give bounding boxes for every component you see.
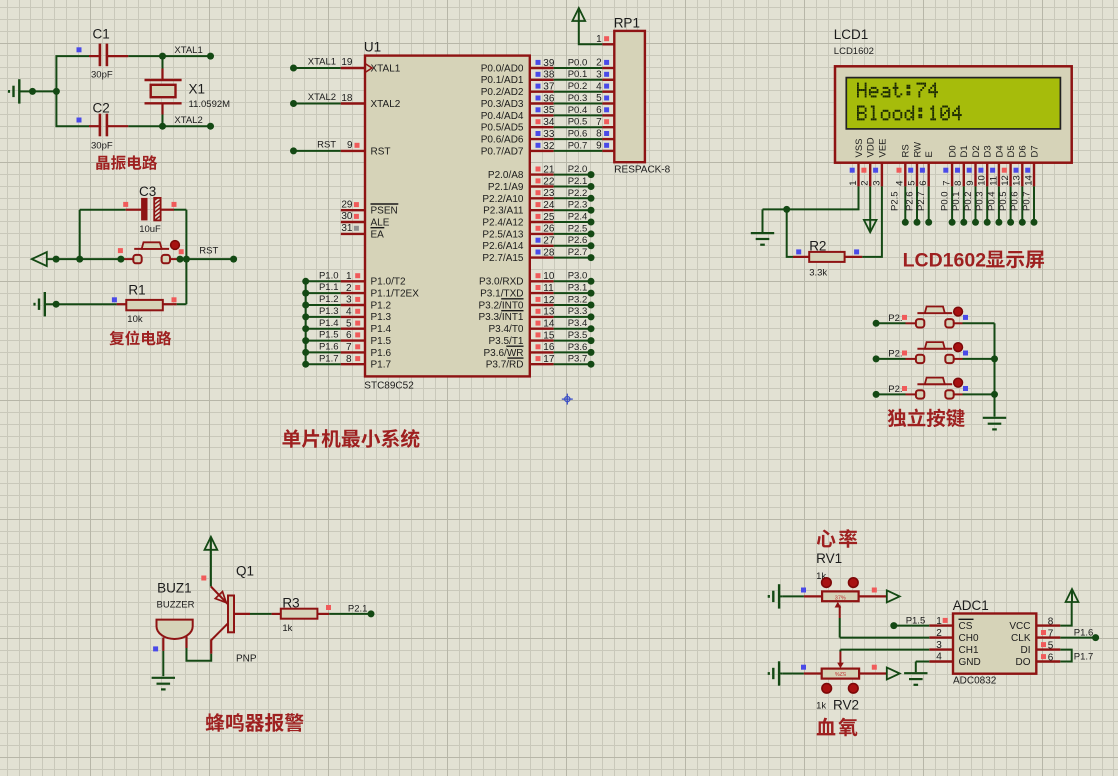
svg-text:25: 25 — [543, 212, 555, 223]
svg-text:21: 21 — [543, 164, 555, 175]
svg-text:VCC: VCC — [1009, 621, 1030, 632]
svg-text:P1.7: P1.7 — [371, 360, 392, 371]
svg-text:7: 7 — [1048, 629, 1054, 640]
svg-text:PSEN: PSEN — [371, 206, 398, 217]
svg-text:37: 37 — [543, 82, 555, 93]
svg-text:C3: C3 — [139, 184, 156, 199]
svg-text:P2.3/A11: P2.3/A11 — [483, 206, 524, 217]
svg-text:7: 7 — [942, 181, 953, 186]
svg-text:24: 24 — [543, 200, 555, 211]
svg-text:R2: R2 — [809, 238, 826, 253]
svg-text:3: 3 — [936, 640, 942, 651]
svg-text:52%: 52% — [835, 670, 846, 676]
svg-text:2: 2 — [860, 181, 871, 186]
svg-text:P0.0/AD0: P0.0/AD0 — [481, 63, 524, 74]
svg-text:RS: RS — [901, 144, 912, 157]
svg-text:P0.6: P0.6 — [568, 129, 588, 140]
svg-text:D4: D4 — [994, 145, 1005, 157]
svg-text:P0.1/AD1: P0.1/AD1 — [481, 75, 524, 86]
svg-text:P0.0: P0.0 — [940, 191, 951, 211]
svg-text:11: 11 — [543, 283, 554, 294]
svg-text:VSS: VSS — [854, 138, 865, 157]
svg-text:10: 10 — [543, 271, 555, 282]
svg-text:7: 7 — [596, 117, 602, 128]
svg-text:P0.4: P0.4 — [986, 191, 997, 211]
svg-text:P2.1: P2.1 — [348, 604, 368, 615]
svg-text:5: 5 — [346, 318, 352, 329]
svg-text:P3.1: P3.1 — [568, 283, 588, 294]
svg-text:34: 34 — [543, 117, 555, 128]
svg-text:1: 1 — [346, 271, 352, 282]
svg-text:P1.6: P1.6 — [319, 342, 339, 353]
svg-text:30pF: 30pF — [91, 70, 113, 81]
svg-text:8: 8 — [596, 129, 602, 140]
svg-text:10uF: 10uF — [139, 224, 161, 235]
svg-text:P0.1: P0.1 — [951, 191, 962, 211]
svg-text:5: 5 — [596, 93, 602, 104]
svg-text:ADC0832: ADC0832 — [953, 676, 997, 687]
svg-text:12: 12 — [1000, 175, 1011, 186]
svg-text:X1: X1 — [189, 82, 206, 97]
svg-text:U1: U1 — [364, 39, 381, 54]
svg-text:10: 10 — [977, 175, 988, 186]
svg-text:P3.7/RD: P3.7/RD — [486, 360, 524, 371]
svg-text:P0.2/AD2: P0.2/AD2 — [481, 87, 524, 98]
svg-text:P3.5/T1: P3.5/T1 — [488, 336, 523, 347]
svg-text:7: 7 — [346, 342, 352, 353]
svg-text:PNP: PNP — [236, 654, 257, 665]
svg-text:DI: DI — [1021, 645, 1031, 656]
svg-text:P3.5: P3.5 — [568, 330, 588, 341]
svg-text:P2.7/A15: P2.7/A15 — [482, 253, 524, 264]
svg-text:1k: 1k — [282, 623, 292, 634]
svg-text:P2.5: P2.5 — [568, 223, 588, 234]
svg-text:RST: RST — [371, 146, 391, 157]
svg-text:33: 33 — [543, 129, 555, 140]
svg-text:D0: D0 — [948, 145, 959, 157]
svg-text:D3: D3 — [983, 145, 994, 157]
svg-text:P2.6: P2.6 — [904, 191, 915, 211]
svg-text:P1.0/T2: P1.0/T2 — [371, 277, 406, 288]
svg-text:XTAL2: XTAL2 — [371, 99, 401, 110]
svg-text:P2.1: P2.1 — [568, 176, 588, 187]
svg-text:P0.5/AD5: P0.5/AD5 — [481, 123, 524, 134]
svg-text:27: 27 — [543, 236, 555, 247]
svg-text:XTAL2: XTAL2 — [308, 92, 336, 103]
svg-text:P2.7: P2.7 — [916, 191, 927, 211]
svg-text:P1.2: P1.2 — [319, 294, 339, 305]
svg-text:18: 18 — [341, 93, 353, 104]
svg-text:XTAL1: XTAL1 — [308, 57, 336, 68]
svg-text:P3.0/RXD: P3.0/RXD — [479, 277, 523, 288]
svg-text:Q1: Q1 — [236, 563, 254, 578]
svg-text:9: 9 — [965, 181, 976, 186]
svg-text:P2.2/A10: P2.2/A10 — [482, 194, 524, 205]
svg-text:DO: DO — [1016, 657, 1031, 668]
svg-text:P2.7: P2.7 — [568, 247, 588, 258]
svg-text:14: 14 — [1023, 175, 1034, 186]
svg-text:P1.5: P1.5 — [319, 330, 339, 341]
svg-text:P1.3: P1.3 — [371, 312, 392, 323]
svg-text:P1.6: P1.6 — [1074, 627, 1094, 638]
svg-text:LCD1: LCD1 — [834, 27, 869, 42]
svg-text:RST: RST — [199, 246, 218, 257]
svg-text:BUZZER: BUZZER — [157, 600, 195, 611]
svg-text:9: 9 — [596, 141, 602, 152]
svg-text:P0.4: P0.4 — [568, 105, 588, 116]
svg-text:P3.2/INT0: P3.2/INT0 — [478, 300, 523, 311]
svg-text:1: 1 — [936, 616, 942, 627]
svg-text:10k: 10k — [127, 314, 143, 325]
svg-text:30pF: 30pF — [91, 141, 113, 152]
svg-text:P3.3/INT1: P3.3/INT1 — [478, 312, 523, 323]
svg-text:4: 4 — [596, 81, 602, 92]
svg-text:P0.3: P0.3 — [568, 93, 588, 104]
svg-text:2: 2 — [596, 58, 602, 69]
svg-text:VEE: VEE — [877, 138, 888, 157]
svg-text:RP1: RP1 — [614, 16, 640, 31]
svg-text:35: 35 — [543, 105, 555, 116]
svg-text:26: 26 — [543, 224, 555, 235]
svg-text:P1.1: P1.1 — [319, 282, 339, 293]
svg-text:XTAL1: XTAL1 — [174, 45, 202, 56]
svg-text:P2.2: P2.2 — [568, 188, 588, 199]
svg-text:P1.7: P1.7 — [1074, 652, 1094, 663]
svg-text:8: 8 — [1048, 616, 1054, 627]
svg-text:31: 31 — [341, 223, 353, 234]
svg-text:D7: D7 — [1029, 145, 1040, 157]
svg-text:4: 4 — [346, 307, 352, 318]
svg-text:22: 22 — [543, 176, 555, 187]
svg-text:6: 6 — [918, 181, 929, 186]
svg-text:P2.4/A12: P2.4/A12 — [482, 217, 524, 228]
svg-text:36: 36 — [543, 93, 555, 104]
svg-text:RESPACK-8: RESPACK-8 — [614, 165, 670, 176]
svg-text:5: 5 — [1048, 641, 1054, 652]
svg-text:RST: RST — [317, 140, 336, 151]
svg-text:P1.5: P1.5 — [371, 336, 392, 347]
svg-text:P3.3: P3.3 — [568, 306, 588, 317]
svg-text:15: 15 — [543, 330, 555, 341]
svg-text:4: 4 — [936, 652, 942, 663]
svg-text:R3: R3 — [282, 595, 299, 610]
svg-text:GND: GND — [959, 657, 981, 668]
svg-text:P2.6/A14: P2.6/A14 — [482, 241, 524, 252]
svg-text:P2.0: P2.0 — [568, 164, 588, 175]
svg-text:P3.2: P3.2 — [568, 294, 588, 305]
svg-text:P0.7/AD7: P0.7/AD7 — [481, 146, 524, 157]
svg-text:29: 29 — [341, 199, 353, 210]
svg-text:P1.2: P1.2 — [371, 300, 392, 311]
svg-text:3.3k: 3.3k — [809, 267, 827, 278]
svg-text:P3.7: P3.7 — [568, 354, 588, 365]
svg-text:11: 11 — [988, 176, 999, 186]
svg-text:3: 3 — [346, 295, 352, 306]
svg-text:P2.4: P2.4 — [568, 211, 588, 222]
svg-text:P0.5: P0.5 — [568, 117, 588, 128]
svg-text:ALE: ALE — [371, 217, 390, 228]
svg-text:P0.2: P0.2 — [963, 191, 974, 211]
svg-text:6: 6 — [346, 330, 352, 341]
svg-text:P2.: P2. — [888, 384, 902, 395]
svg-text:P2.3: P2.3 — [568, 200, 588, 211]
svg-text:3: 3 — [871, 181, 882, 186]
svg-text:P0.0: P0.0 — [568, 57, 588, 68]
svg-text:P0.7: P0.7 — [568, 140, 588, 151]
svg-text:11.0592M: 11.0592M — [189, 99, 231, 110]
svg-text:CS: CS — [959, 621, 973, 632]
svg-text:P2.: P2. — [888, 348, 902, 359]
svg-text:P0.1: P0.1 — [568, 69, 588, 80]
svg-text:P2.6: P2.6 — [568, 235, 588, 246]
svg-text:6: 6 — [596, 105, 602, 116]
svg-text:P0.4/AD4: P0.4/AD4 — [481, 111, 524, 122]
svg-text:2: 2 — [346, 283, 352, 294]
svg-text:12: 12 — [543, 295, 555, 306]
svg-text:CH0: CH0 — [959, 633, 979, 644]
svg-text:39: 39 — [543, 58, 555, 69]
svg-text:14: 14 — [543, 319, 555, 330]
svg-text:17: 17 — [543, 354, 555, 365]
svg-text:30: 30 — [341, 211, 353, 222]
svg-text:4: 4 — [895, 181, 906, 186]
svg-text:P0.2: P0.2 — [568, 81, 588, 92]
svg-text:P1.6: P1.6 — [371, 348, 392, 359]
svg-text:P3.1/TXD: P3.1/TXD — [480, 289, 523, 300]
svg-text:32: 32 — [543, 141, 555, 152]
svg-text:P0.5: P0.5 — [998, 191, 1009, 211]
svg-text:P1.4: P1.4 — [371, 324, 392, 335]
svg-text:28: 28 — [543, 247, 555, 258]
svg-text:C2: C2 — [93, 101, 110, 116]
svg-text:ADC1: ADC1 — [953, 598, 989, 613]
svg-text:P0.6/AD6: P0.6/AD6 — [481, 135, 524, 146]
svg-text:P1.0: P1.0 — [319, 270, 339, 281]
svg-text:CLK: CLK — [1011, 633, 1031, 644]
svg-text:CH1: CH1 — [959, 645, 979, 656]
svg-text:P1.3: P1.3 — [319, 306, 339, 317]
svg-text:5: 5 — [906, 181, 917, 186]
svg-text:RV2: RV2 — [833, 698, 859, 713]
svg-text:9: 9 — [347, 140, 353, 151]
svg-text:XTAL1: XTAL1 — [371, 63, 401, 74]
svg-text:8: 8 — [953, 181, 964, 186]
svg-text:P3.6/WR: P3.6/WR — [483, 348, 523, 359]
svg-text:P2.0/A8: P2.0/A8 — [488, 170, 524, 181]
svg-text:P3.0: P3.0 — [568, 271, 588, 282]
svg-text:P2.5: P2.5 — [889, 191, 900, 211]
svg-text:RV1: RV1 — [816, 551, 842, 566]
svg-text:P0.7: P0.7 — [1021, 191, 1032, 211]
svg-text:D6: D6 — [1018, 145, 1029, 157]
svg-text:16: 16 — [543, 342, 555, 353]
svg-text:37%: 37% — [835, 595, 846, 601]
svg-text:LCD1602: LCD1602 — [834, 46, 874, 57]
svg-text:D5: D5 — [1006, 145, 1017, 157]
svg-text:2: 2 — [936, 628, 942, 639]
svg-text:P2.: P2. — [888, 313, 902, 324]
svg-text:C1: C1 — [93, 27, 110, 42]
svg-text:23: 23 — [543, 188, 555, 199]
svg-text:P2.1/A9: P2.1/A9 — [488, 182, 524, 193]
svg-text:P1.5: P1.5 — [906, 616, 926, 627]
svg-text:VDD: VDD — [866, 137, 877, 157]
svg-text:EA: EA — [371, 229, 385, 240]
svg-text:8: 8 — [346, 354, 352, 365]
svg-text:P0.6: P0.6 — [1010, 191, 1021, 211]
svg-text:XTAL2: XTAL2 — [174, 115, 202, 126]
svg-text:38: 38 — [543, 70, 555, 81]
svg-text:R1: R1 — [128, 283, 145, 298]
svg-text:P0.3/AD3: P0.3/AD3 — [481, 99, 524, 110]
svg-text:13: 13 — [543, 307, 555, 318]
svg-text:D2: D2 — [971, 145, 982, 157]
svg-text:P3.6: P3.6 — [568, 342, 588, 353]
svg-text:BUZ1: BUZ1 — [157, 581, 192, 596]
svg-text:P1.4: P1.4 — [319, 318, 339, 329]
svg-text:D1: D1 — [959, 145, 970, 157]
svg-text:P3.4/T0: P3.4/T0 — [488, 324, 523, 335]
svg-text:6: 6 — [1048, 653, 1054, 664]
svg-text:19: 19 — [341, 57, 353, 68]
svg-text:STC89C52: STC89C52 — [364, 381, 414, 392]
svg-text:13: 13 — [1012, 175, 1023, 186]
svg-text:1: 1 — [596, 34, 602, 45]
svg-text:E: E — [924, 151, 935, 157]
svg-text:P1.7: P1.7 — [319, 353, 339, 364]
svg-text:P1.1/T2EX: P1.1/T2EX — [371, 289, 420, 300]
svg-text:P3.4: P3.4 — [568, 318, 588, 329]
svg-text:1k: 1k — [816, 701, 826, 712]
svg-text:P2.5/A13: P2.5/A13 — [482, 229, 524, 240]
svg-text:RW: RW — [912, 142, 923, 158]
svg-text:3: 3 — [596, 69, 602, 80]
svg-text:P0.3: P0.3 — [975, 191, 986, 211]
svg-text:1: 1 — [848, 181, 859, 186]
svg-text:LCD1602: LCD1602 — [903, 250, 987, 272]
